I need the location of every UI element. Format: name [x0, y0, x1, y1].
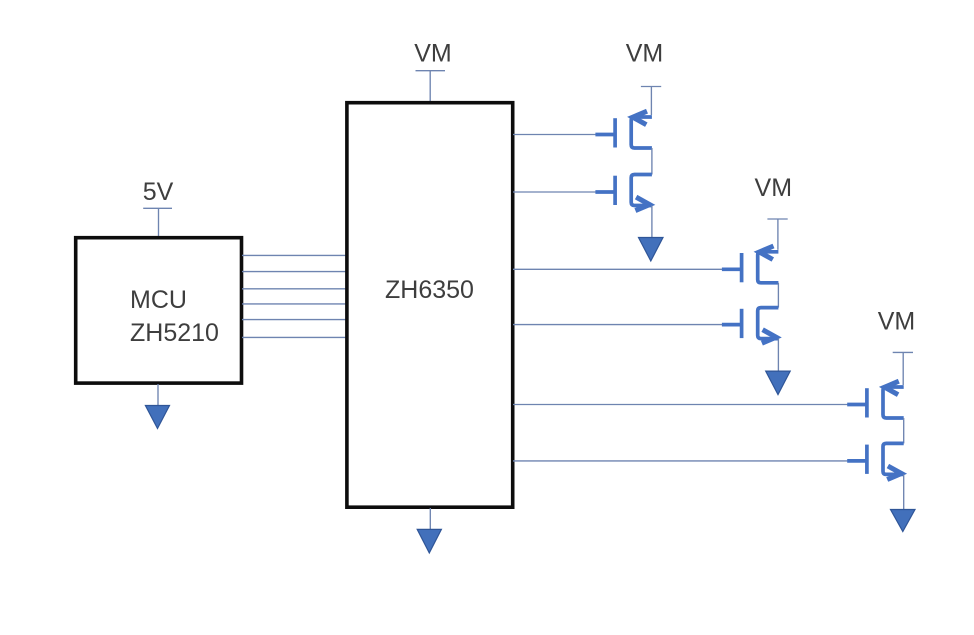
wire ZH6350 to Q5 gate	[513, 404, 848, 406]
svg-text:VM: VM	[755, 174, 793, 202]
wire Q4 source to ground	[777, 339, 779, 373]
svg-text:ZH5210: ZH5210	[130, 319, 219, 347]
wire VM to Q3 source	[777, 219, 779, 250]
svg-text:5V: 5V	[143, 178, 174, 206]
label MCU ZH5210	[130, 286, 219, 347]
transistor Q2 NMOS low-side half-bridge 1	[595, 175, 652, 211]
wire VM stem to ZH6350	[429, 71, 431, 102]
wire Q3 drain to Q4 drain node OUT2	[777, 283, 779, 308]
ground under MCU	[145, 406, 169, 429]
wire VM to Q1 source	[650, 87, 652, 116]
power symbol VM bar half-bridge 3	[893, 351, 913, 353]
wire Q6 source to ground	[903, 474, 905, 510]
power symbol 5V bar	[143, 207, 172, 209]
svg-text:VM: VM	[626, 39, 664, 67]
ground under ZH6350	[417, 529, 441, 553]
label ZH6350	[385, 276, 474, 304]
transistor Q6 NMOS low-side half-bridge 3	[847, 443, 904, 479]
svg-text:VM: VM	[878, 308, 916, 336]
wire ZH6350 to ground	[429, 508, 431, 530]
svg-text:VM: VM	[414, 39, 452, 67]
net VM label half-bridge 1	[626, 39, 664, 67]
wire ZH6350 to Q2 gate	[513, 191, 596, 193]
net VM label half-bridge 2	[755, 174, 793, 202]
wire MCU to ZH6350 signal 1	[242, 254, 346, 256]
MCU U1 box ZH5210	[76, 238, 242, 383]
transistor Q4 NMOS low-side half-bridge 2	[722, 308, 779, 344]
wire MCU to ZH6350 signal 2	[242, 271, 346, 273]
wire MCU to ZH6350 signal 5	[242, 319, 346, 321]
wire ZH6350 to Q3 gate	[513, 268, 723, 270]
wire VM to Q5 source	[902, 352, 904, 385]
wire MCU to ground	[157, 384, 159, 407]
svg-text:ZH6350: ZH6350	[385, 276, 474, 304]
net 5V label	[143, 178, 174, 206]
net VM label half-bridge 3	[878, 308, 916, 336]
transistor Q5 PMOS high-side half-bridge 3	[847, 381, 904, 418]
wire ZH6350 to Q1 gate	[513, 134, 596, 136]
ground half-bridge 1	[639, 238, 664, 262]
wire 5V stem to MCU	[158, 208, 160, 236]
wire Q1 drain to Q2 drain node OUT1	[651, 148, 653, 175]
wire Q5 drain to Q6 drain node OUT3	[903, 418, 905, 443]
net VM label over ZH6350	[414, 39, 452, 67]
wire ZH6350 to Q6 gate	[513, 460, 848, 462]
svg-text:MCU: MCU	[130, 286, 187, 314]
wire MCU to ZH6350 signal 6	[242, 336, 346, 338]
ground half-bridge 3	[891, 510, 916, 532]
wire Q2 source to ground	[651, 206, 653, 239]
ground half-bridge 2	[766, 371, 791, 395]
wire ZH6350 to Q4 gate	[513, 324, 723, 326]
wire MCU to ZH6350 signal 3	[242, 288, 346, 290]
driver U2 box ZH6350	[347, 103, 513, 508]
transistor Q3 PMOS high-side half-bridge 2	[722, 246, 779, 283]
transistor Q1 PMOS high-side half-bridge 1	[595, 111, 652, 148]
power symbol VM bar half-bridge 2	[767, 218, 787, 220]
power symbol VM bar over ZH6350	[416, 70, 446, 72]
power symbol VM bar half-bridge 1	[641, 86, 661, 88]
wire MCU to ZH6350 signal 4	[242, 303, 346, 305]
